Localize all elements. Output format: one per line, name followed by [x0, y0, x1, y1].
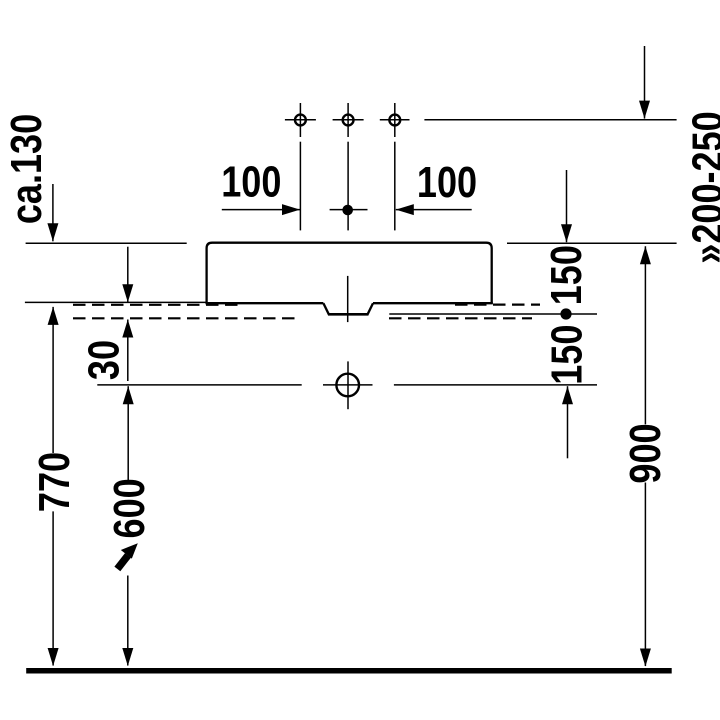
dim line 770 upper: [52, 307, 54, 453]
basin centre line: [347, 276, 349, 322]
dashed countertop top edge right: [455, 304, 540, 306]
dim line 600 lower: [127, 576, 129, 666]
basin bottom right segment: [373, 302, 493, 304]
dim line 600 upper: [127, 386, 129, 483]
dim line 100 left: [222, 209, 300, 211]
tap hole 3 crosshair: [380, 119, 410, 121]
dim line 30 lower: [127, 320, 129, 382]
countertop level line left: [25, 301, 207, 303]
arrowhead down 770 floor: [48, 648, 59, 666]
dim line 770 lower: [52, 511, 54, 665]
tap hole 2 crosshair: [333, 119, 364, 121]
dim line 150 lower arrow: [567, 386, 569, 458]
rim level line left: [26, 242, 187, 244]
arrowhead down 200-250: [639, 101, 650, 119]
drain circle: [336, 374, 359, 397]
svg-text:770: 770: [30, 452, 79, 512]
mid level marker dot: [560, 308, 571, 319]
svg-text:900: 900: [621, 423, 670, 483]
adjustability arrow (diagonal): [114, 543, 137, 571]
dim line ca.130: [52, 184, 54, 241]
svg-text:30: 30: [79, 340, 128, 380]
svg-text:150: 150: [542, 245, 591, 305]
arrowhead down ca.130: [47, 223, 58, 241]
arrowhead down 900 floor: [640, 649, 651, 667]
tap hole circle 2: [343, 115, 354, 126]
extension line below tap hole 1: [299, 142, 301, 231]
dim line 200-250 arrow: [644, 46, 646, 119]
arrowhead up 30: [122, 320, 133, 338]
dim line 900 upper: [644, 246, 646, 424]
washbasin body: [206, 243, 493, 315]
tap hole reference line (extended right): [424, 119, 676, 121]
arrowhead right at tap line 1: [282, 204, 300, 215]
tap hole circle 1: [295, 115, 306, 126]
drain level line right: [394, 384, 597, 386]
arrowhead down 600 floor: [122, 648, 133, 666]
arrowhead up 600: [123, 386, 134, 404]
svg-text:600: 600: [105, 478, 154, 538]
tap hole 1 crosshair: [285, 119, 316, 121]
svg-text:ca.130: ca.130: [2, 114, 51, 224]
centre marker dot: [342, 205, 353, 216]
extension line below tap hole 2: [347, 142, 349, 231]
drain crosshair vertical: [347, 361, 349, 409]
extension line below tap hole 3: [394, 142, 396, 231]
drain notch: [323, 303, 373, 314]
dashed countertop top edge left: [73, 305, 540, 319]
svg-text:150: 150: [542, 325, 591, 385]
drain level line left: [97, 384, 301, 386]
dim line 100 right: [396, 209, 472, 211]
floor line: [26, 668, 672, 674]
arrowhead up 900: [640, 246, 651, 264]
svg-text:100: 100: [221, 157, 281, 206]
basin bottom left segment: [206, 302, 324, 304]
arrowhead down 30: [122, 284, 133, 302]
tap hole circle 3: [389, 115, 400, 126]
mid 150 level line right: [389, 313, 597, 315]
svg-text:»200-250: »200-250: [683, 111, 720, 263]
arrowhead up 770: [48, 307, 59, 325]
rim level line right: [507, 242, 677, 244]
dim line 900 lower: [644, 483, 646, 667]
short line through centre dot: [330, 209, 368, 211]
dim line 150 upper arrow: [566, 170, 568, 242]
dim line 30 upper: [127, 247, 129, 303]
svg-text:100: 100: [417, 158, 477, 207]
arrowhead up 150 lower: [562, 386, 573, 404]
dashed countertop bottom edge right: [389, 317, 532, 319]
arrowhead down 150 upper: [561, 224, 572, 242]
dashed countertop bottom edge left: [73, 317, 301, 319]
drain crosshair horizontal: [323, 384, 373, 386]
arrowhead left at tap line 3: [396, 204, 414, 215]
